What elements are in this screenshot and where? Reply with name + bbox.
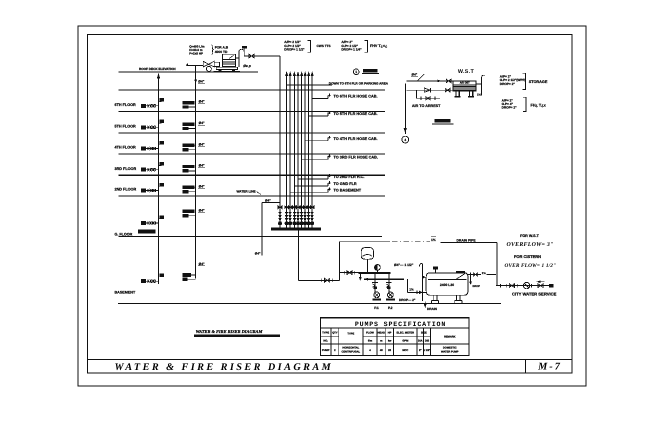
bank riser 6 (304, 75, 306, 228)
pump suction header (364, 278, 404, 280)
svg-text:CWS TTS: CWS TTS (317, 44, 331, 48)
vent cap (242, 46, 247, 49)
riser R1 top arrow (157, 74, 160, 79)
svg-text:A/D DET: A/D DET (460, 82, 470, 85)
svg-text:Ø4": Ø4" (255, 252, 261, 256)
svg-text:4: 4 (404, 138, 406, 142)
city valve (538, 284, 543, 288)
svg-text:DROP= 2": DROP= 2" (500, 82, 516, 86)
R2 branch fitting (182, 210, 194, 213)
cistern overflow right (468, 274, 481, 276)
feed arrow (437, 80, 441, 83)
lower feed check valve (424, 88, 430, 92)
svg-text:Øe p: Øe p (243, 64, 251, 68)
floor line 2ND (119, 195, 386, 197)
FHC valve (146, 222, 158, 224)
bank riser 3 (293, 75, 295, 228)
pump P.1 drop (374, 273, 376, 293)
branch stub TO 3RD FLR HOSE CAB. (302, 158, 328, 160)
FHC cabinet box (141, 147, 146, 151)
manifold stack valve (296, 206, 300, 209)
air release branch (416, 90, 418, 98)
svg-text:Ø4": Ø4" (198, 80, 204, 84)
down pipe arrow (404, 128, 407, 133)
bank branch DOWN TO line (287, 84, 332, 86)
svg-text:WATER & FIRE RISER DIAGRAM: WATER & FIRE RISER DIAGRAM (196, 329, 264, 334)
svg-text:MCC: MCC (402, 349, 408, 352)
diagram subtitle underline (194, 335, 280, 338)
svg-text:TYPE: TYPE (322, 331, 329, 334)
svg-text:2: 2 (334, 349, 336, 352)
water line takeoff (262, 202, 280, 204)
riser tag box (159, 162, 164, 165)
svg-text:2": 2" (419, 349, 422, 352)
feed slope mark (418, 74, 425, 81)
svg-text:TO 6TH FLR HOSE CAB.: TO 6TH FLR HOSE CAB. (334, 95, 378, 99)
pump P.1 base (372, 298, 381, 300)
discharge line to riser bank (244, 55, 280, 57)
spec bracket lower (523, 97, 526, 111)
pump impeller circle (206, 66, 211, 71)
pump P.2 body (388, 292, 394, 298)
cistern drain hook (420, 263, 423, 266)
vent symbol circle (353, 69, 359, 75)
svg-text:AIR TO ARREST: AIR TO ARREST (412, 104, 441, 108)
svg-text:TYPE: TYPE (347, 333, 354, 336)
riser R2 (water riser) (195, 65, 197, 279)
pump base pad (213, 71, 240, 73)
riser tag box (159, 215, 164, 218)
floor line 7F (119, 89, 386, 91)
svg-text:DIA: DIA (418, 340, 423, 343)
svg-text:FOR CISTERN: FOR CISTERN (514, 254, 541, 259)
bank riser 4 (297, 75, 299, 228)
svg-text:1½: 1½ (482, 271, 487, 275)
svg-text:CITY WATER SERVICE: CITY WATER SERVICE (512, 292, 557, 297)
manifold stack valve (310, 206, 314, 209)
R2 branch fitting (182, 144, 194, 147)
svg-text:TO 3RD FLR HOSE CAB.: TO 3RD FLR HOSE CAB. (334, 156, 378, 160)
water line drop (261, 203, 263, 256)
svg-text:HP: HP (388, 331, 392, 334)
cistern top right fitting (456, 271, 465, 273)
svg-text:DROP— 2": DROP— 2" (399, 298, 416, 302)
tank suction line (408, 291, 427, 293)
manifold stack valve (303, 206, 307, 209)
svg-text:P.1: P.1 (374, 306, 379, 310)
water meter (523, 282, 529, 288)
continuation circle (402, 136, 409, 143)
R2 branch fitting (182, 165, 194, 168)
tank suction drop (407, 279, 409, 292)
suction riser up (338, 242, 340, 281)
basement FHC valve (146, 280, 158, 282)
branch stub TO 6TH FLR HOSE CAB. (312, 98, 328, 100)
svg-text:6TH FLOOR: 6TH FLOOR (115, 103, 137, 107)
R2 branch fitting (182, 186, 194, 189)
riser tag box (159, 120, 164, 123)
svg-text:WATER & FIRE RISER DIAGRAM: WATER & FIRE RISER DIAGRAM (115, 362, 334, 373)
svg-text:ROOF DECK ELEVATION: ROOF DECK ELEVATION (139, 67, 176, 71)
svg-text:m: m (380, 340, 383, 343)
riser tag box (159, 141, 164, 144)
drain header line (339, 241, 390, 243)
svg-text:DOMESTIC: DOMESTIC (443, 347, 457, 350)
sheet outer border (78, 26, 586, 386)
bank riser 1 (286, 75, 288, 228)
svg-text:2400 L30: 2400 L30 (440, 283, 454, 287)
cistern tank body (426, 273, 468, 295)
svg-text:1½: 1½ (477, 92, 482, 96)
svg-text:W.S.T: W.S.T (458, 69, 475, 75)
svg-text:Ø4": Ø4" (199, 142, 205, 146)
svg-text:4000 TD: 4000 TD (215, 50, 228, 54)
FHC valve (146, 169, 158, 171)
svg-text:4: 4 (369, 349, 371, 352)
riser R1 (fire riser) (158, 74, 160, 285)
cistern legs (431, 295, 438, 303)
lower feed valve (445, 89, 450, 92)
svg-text:3RD FLOOR: 3RD FLOOR (115, 167, 137, 171)
svg-text:TO 2ND FLR H.C.: TO 2ND FLR H.C. (334, 175, 365, 179)
dense note bar at ground floor (138, 229, 155, 233)
pump P.2 base (386, 298, 395, 300)
svg-text:FH¿ T¿x: FH¿ T¿x (531, 104, 547, 108)
riser R2 size label 4.0 (194, 79, 197, 83)
svg-text:Ø4": Ø4" (199, 164, 205, 168)
floor line 6TH (119, 110, 386, 112)
branch stub TO BASEMENT (290, 191, 328, 193)
svg-text:Ø4": Ø4" (199, 100, 205, 104)
cistern inlet stub (422, 276, 426, 278)
vent note bar (363, 69, 378, 73)
drain line right (441, 241, 498, 243)
svg-text:4TH FLOOR: 4TH FLOOR (115, 146, 137, 150)
feed valve (446, 79, 451, 82)
top spec bracket B (364, 40, 367, 52)
svg-text:1: 1 (355, 70, 357, 74)
table column lines (330, 328, 332, 356)
svg-text:DOWN TO 6TH FLR OR PARKING ARE: DOWN TO 6TH FLR OR PARKING AREA (329, 81, 389, 85)
branch stub TO GND FLR (294, 185, 328, 187)
FHC cabinet box (141, 189, 146, 193)
svg-text:WATER LINE: WATER LINE (237, 190, 256, 194)
riser tag box (159, 183, 164, 186)
svg-text:FLOW: FLOW (366, 331, 374, 334)
pump P.1 body (374, 292, 380, 298)
main down pipe from pump line (404, 84, 406, 135)
drain drop at right (496, 242, 498, 285)
roof deck note bar (434, 119, 450, 123)
W.S.T. legs (455, 91, 461, 97)
svg-text:TO GND FLR: TO GND FLR (334, 182, 357, 186)
manifold stack valve (285, 206, 289, 209)
manifold outlet drop (297, 230, 299, 280)
svg-text:GPM: GPM (402, 340, 408, 343)
branch stub TO 2ND FLR H.C. (298, 178, 328, 180)
pump suction left line (339, 272, 358, 274)
svg-text:1½: 1½ (409, 288, 414, 292)
svg-text:kw: kw (388, 340, 392, 343)
pump specification table frame (320, 318, 469, 356)
header left drop arrow (359, 274, 361, 278)
svg-text:2ND FLOOR: 2ND FLOOR (115, 188, 137, 192)
svg-text:P=2x5 HP: P=2x5 HP (189, 51, 203, 55)
svg-text:WATER PUMP: WATER PUMP (441, 350, 459, 353)
pump suction pipe (187, 65, 204, 67)
FHC valve (146, 190, 158, 192)
svg-text:DIS: DIS (425, 340, 430, 343)
svg-text:DRAIN: DRAIN (427, 307, 438, 311)
manifold stack valve (278, 206, 282, 209)
svg-text:PUMPS SPECIFICATION: PUMPS SPECIFICATION (355, 321, 446, 328)
svg-text:TO BASEMENT: TO BASEMENT (334, 189, 362, 193)
branch stub TO 5TH FLR HOSE CAB. (309, 115, 328, 117)
pump motor box (222, 54, 235, 66)
sheet number box divider (525, 360, 527, 374)
svg-text:HEAD: HEAD (378, 331, 386, 334)
svg-text:5TH FLOOR: 5TH FLOOR (115, 124, 137, 128)
pressure tank stem (366, 259, 368, 272)
svg-text:PUMP: PUMP (322, 349, 330, 352)
svg-text:CENTRIFUGAL: CENTRIFUGAL (341, 350, 360, 353)
svg-text:OVERFLOW= 3": OVERFLOW= 3" (507, 242, 554, 248)
bank riser 5 (301, 75, 303, 228)
city water source block (549, 284, 554, 288)
svg-text:M-7: M-7 (537, 362, 562, 373)
riser tag box (159, 98, 164, 101)
W.S.T. overflow hook (476, 83, 481, 85)
svg-text:FOR A.B: FOR A.B (215, 46, 229, 50)
svg-text:Ø4"— 1 1/2": Ø4"— 1 1/2" (394, 263, 414, 267)
table sub-header split (320, 336, 338, 338)
cistern top band (428, 279, 466, 281)
discharge valve (249, 54, 254, 58)
R2 basement fitting (182, 273, 191, 277)
pressure gauge (375, 265, 381, 271)
FHC valve (146, 126, 158, 128)
discharge pipe to vent (236, 57, 239, 59)
bank riser 7 (308, 75, 310, 228)
FHC valve (146, 105, 158, 107)
ground floor line (118, 235, 382, 237)
svg-text:HORIZONTAL: HORIZONTAL (342, 347, 359, 350)
svg-text:Ø4": Ø4" (199, 121, 205, 125)
vent/feed drop pipe (279, 56, 281, 227)
svg-text:DROP= 2": DROP= 2" (502, 106, 518, 110)
manifold stack valve (292, 206, 296, 209)
svg-text:DROP: DROP (473, 285, 481, 288)
floor line 4TH (119, 153, 386, 155)
W.S.T. feed line lower (407, 89, 454, 91)
pump discharge header (359, 272, 391, 274)
R2 branch fitting (182, 122, 194, 125)
svg-text:BASEMENT: BASEMENT (115, 290, 136, 294)
svg-text:FOR W.S.T: FOR W.S.T (520, 234, 540, 238)
manifold stack valve (307, 206, 311, 209)
basement riser tag (159, 273, 164, 276)
suction line from manifold (298, 279, 339, 281)
svg-text:Ø4": Ø4" (199, 262, 205, 266)
FHC valve (146, 148, 158, 150)
cistern right drop fitting (470, 276, 472, 282)
table data row line (320, 343, 469, 345)
title bar line (88, 359, 573, 361)
svg-text:1½: 1½ (431, 238, 436, 242)
svg-text:ELEC. METER: ELEC. METER (397, 331, 415, 334)
svg-text:TO 5TH FLR HOSE CAB.: TO 5TH FLR HOSE CAB. (334, 112, 378, 116)
manifold header bar (271, 227, 321, 230)
svg-text:NO.: NO. (323, 340, 328, 343)
svg-text:1 1/2": 1 1/2" (423, 349, 431, 352)
svg-text:G. FLOOR: G. FLOOR (115, 233, 133, 237)
svg-text:DROP= 1 1/2": DROP= 1 1/2" (284, 47, 305, 51)
svg-text:TO 4TH FLR HOSE CAB.: TO 4TH FLR HOSE CAB. (334, 137, 378, 141)
svg-text:40: 40 (380, 349, 383, 352)
spec brace (212, 45, 214, 54)
spec bracket upper (523, 73, 526, 89)
floor line 5TH (119, 132, 386, 134)
basement FHC cabinet (141, 279, 146, 283)
svg-text:SIZE: SIZE (421, 331, 427, 334)
svg-text:Ø4": Ø4" (412, 73, 418, 77)
branch stub TO 4TH FLR HOSE CAB. (305, 140, 328, 142)
suction valve (325, 278, 330, 282)
svg-text:Ø4": Ø4" (199, 184, 205, 188)
sheet inner border (88, 35, 573, 374)
svg-text:QTY: QTY (332, 331, 338, 334)
drain dash-dot segment (392, 241, 430, 243)
svg-text:P.2: P.2 (388, 306, 393, 310)
manifold stack valve (288, 206, 292, 209)
svg-text:Ø4": Ø4" (199, 209, 205, 213)
basement floor line (118, 302, 501, 304)
pump body (203, 61, 214, 67)
roof line (119, 71, 259, 73)
svg-text:DROP= 1 1/4": DROP= 1 1/4" (341, 47, 362, 51)
W.S.T. tank body (453, 81, 476, 91)
W.S.T. feed line upper (407, 80, 454, 82)
R2 branch fitting (182, 101, 194, 104)
pump base plate (216, 67, 237, 69)
FHC cabinet box (141, 125, 146, 129)
table header row line (320, 327, 469, 329)
svg-text:STORAGE: STORAGE (529, 80, 548, 84)
svg-text:20: 20 (388, 349, 391, 352)
pressure tank (361, 248, 373, 260)
manifold stack valve (300, 206, 304, 209)
svg-text:OVER FLOW= 1 1/2": OVER FLOW= 1 1/2" (505, 263, 557, 269)
floor line 3RD (119, 174, 386, 176)
city water service chain (496, 285, 549, 287)
bank riser 8 (311, 75, 313, 228)
top spec bracket A (308, 40, 311, 52)
svg-text:FHV T¿×¿: FHV T¿×¿ (370, 44, 388, 48)
FHC cabinet box (141, 221, 146, 225)
bank riser 2 (289, 75, 291, 228)
svg-text:ℓ/m: ℓ/m (368, 340, 373, 343)
svg-text:REMARK: REMARK (444, 335, 456, 338)
cistern vent (435, 270, 437, 273)
FHC cabinet box (141, 168, 146, 172)
pump P.2 drop (388, 273, 390, 293)
FHC cabinet box (141, 104, 146, 108)
